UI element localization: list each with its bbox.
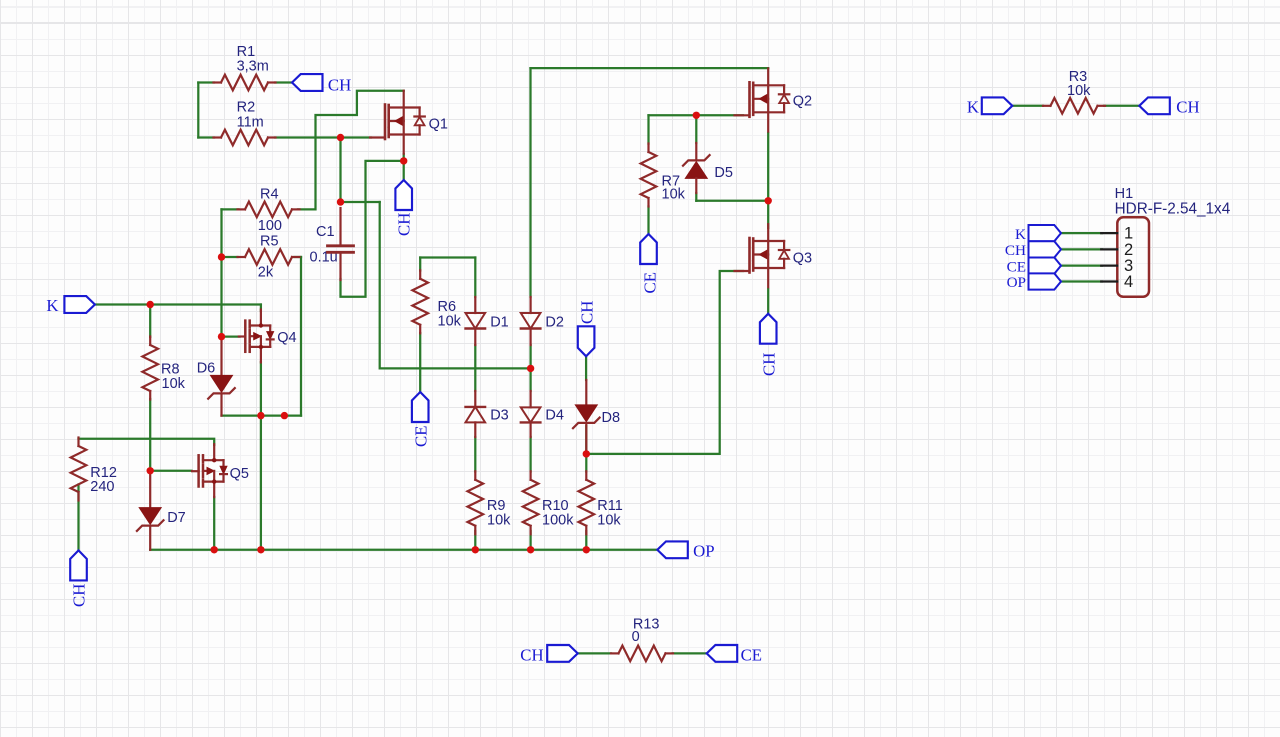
wire R9 bottom xyxy=(474,531,476,550)
wire CH to R13 xyxy=(578,652,611,654)
wire Q5 gate xyxy=(150,470,191,472)
junction node 13 xyxy=(527,546,534,553)
junction node 7 xyxy=(257,412,264,419)
svg-text:Q1: Q1 xyxy=(429,117,448,133)
svg-text:D4: D4 xyxy=(545,408,564,424)
wire to OP line xyxy=(260,416,262,550)
wire R8 bottom xyxy=(149,399,151,471)
wire R5 right lead xyxy=(295,256,302,258)
wire D4 to R10 xyxy=(529,437,531,472)
svg-text:0: 0 xyxy=(632,629,640,645)
port OP (H1) xyxy=(1029,273,1062,289)
diode D8 (TVS) xyxy=(573,405,600,428)
svg-text:3,3m: 3,3m xyxy=(237,59,269,75)
resistor R12 xyxy=(71,438,87,501)
junction node 16 xyxy=(583,450,590,457)
resistor R7 xyxy=(641,144,657,207)
port CH above D8 xyxy=(578,326,595,356)
transistor Q5 xyxy=(192,444,227,497)
diode D3 xyxy=(466,407,486,423)
port CH under Q1 xyxy=(395,180,412,210)
junction node 5 xyxy=(337,198,344,205)
svg-text:CH: CH xyxy=(395,213,414,236)
svg-text:240: 240 xyxy=(90,479,114,495)
wire D1-D3 link xyxy=(474,345,476,391)
svg-text:CH: CH xyxy=(328,75,351,94)
svg-text:R8: R8 xyxy=(161,361,180,377)
resistor R4 xyxy=(238,202,300,218)
diode D5 (TVS) xyxy=(683,155,710,178)
wire R10 bottom xyxy=(529,531,531,550)
svg-text:CE: CE xyxy=(741,646,762,665)
wire C1 node horizontal xyxy=(341,201,380,203)
svg-text:K: K xyxy=(1015,226,1026,243)
diode D1 xyxy=(466,313,486,329)
svg-text:D7: D7 xyxy=(167,510,186,526)
wire R2 to Q1 gate xyxy=(275,136,371,138)
wire K line xyxy=(95,303,261,305)
svg-text:CH: CH xyxy=(70,584,89,607)
svg-text:Q2: Q2 xyxy=(793,94,812,110)
port CH under Q3 xyxy=(760,314,777,344)
resistor R11 xyxy=(579,471,595,534)
wire R12 top row xyxy=(79,439,215,445)
wire Q1 source xyxy=(403,154,405,180)
capacitor C1 xyxy=(328,208,354,280)
svg-text:CH: CH xyxy=(520,646,543,665)
diode D8 anode lead xyxy=(585,380,587,406)
junction node 12 xyxy=(472,546,479,553)
svg-text:1: 1 xyxy=(1124,225,1133,243)
wire R8 top xyxy=(149,305,151,338)
svg-text:D8: D8 xyxy=(602,410,621,426)
svg-text:HDR-F-2.54_1x4: HDR-F-2.54_1x4 xyxy=(1115,201,1231,218)
svg-text:10k: 10k xyxy=(597,512,621,528)
diode D1 leads xyxy=(474,297,476,313)
svg-text:10k: 10k xyxy=(1067,83,1091,99)
wire Q4 gate xyxy=(222,335,240,337)
wire junction to C1 top xyxy=(339,138,341,203)
junction node 11 xyxy=(211,546,218,553)
wire H1 pin 3 xyxy=(1061,264,1102,266)
transistor Q2 xyxy=(735,69,790,132)
svg-text:R2: R2 xyxy=(237,100,256,116)
diode D4 xyxy=(521,407,541,422)
resistor R13 xyxy=(611,646,673,662)
port CH at R13 xyxy=(547,645,578,662)
wire D3 to R9 xyxy=(474,437,476,472)
diode D6 cathode lead xyxy=(220,394,222,416)
svg-text:OP: OP xyxy=(1007,274,1026,291)
wire R4/R5 left vertical xyxy=(220,209,222,336)
svg-text:2k: 2k xyxy=(258,265,274,281)
junction node 6 xyxy=(400,157,407,164)
diode D2 xyxy=(521,313,541,329)
resistor R1 xyxy=(214,75,276,91)
wire R1-R2 left xyxy=(197,83,199,138)
diode D3 leads xyxy=(474,391,476,407)
wire R7 top xyxy=(647,115,649,143)
svg-text:OP: OP xyxy=(693,542,714,561)
svg-text:D3: D3 xyxy=(490,408,509,424)
port CE at R13 xyxy=(707,645,738,662)
junction node 14 xyxy=(583,546,590,553)
wire Q4 bottom row xyxy=(222,414,302,416)
svg-text:D6: D6 xyxy=(197,361,216,377)
wire D2-D4 link xyxy=(529,345,531,391)
wire CH to D8 xyxy=(585,356,587,380)
junction node 3 xyxy=(218,333,225,340)
svg-text:Q5: Q5 xyxy=(230,466,249,482)
wire node D5 xyxy=(696,200,768,202)
svg-text:CE: CE xyxy=(1007,258,1026,275)
wire R7 bottom xyxy=(647,207,649,235)
wire R13 to CE xyxy=(673,652,707,654)
port OP xyxy=(657,541,688,558)
port K main xyxy=(64,296,95,313)
wire R12 bottom xyxy=(77,485,79,551)
svg-text:CE: CE xyxy=(641,272,660,293)
svg-text:C1: C1 xyxy=(316,224,335,240)
wire D5 top xyxy=(695,115,697,143)
wire R6 bottom to CE xyxy=(419,333,421,392)
wire R6 top xyxy=(420,256,475,258)
transistor Q1 xyxy=(370,91,425,154)
junction node 8 xyxy=(281,412,288,419)
resistor R10 xyxy=(523,471,539,534)
wire Q3 source to CH xyxy=(767,289,769,314)
svg-text:CH: CH xyxy=(1176,98,1199,117)
wire Q2 gate line xyxy=(649,114,744,116)
wire R4 left xyxy=(222,208,239,210)
wire H1 pin 4 xyxy=(1061,280,1102,282)
wire Q4 source down xyxy=(260,362,262,416)
junction node 1 xyxy=(147,301,154,308)
wire D1 anode xyxy=(474,258,476,298)
svg-text:10k: 10k xyxy=(487,512,511,528)
wire top long to Q2 xyxy=(531,67,769,69)
wire H1 pin 2 xyxy=(1061,248,1102,250)
wire Q5 source down xyxy=(213,497,215,550)
svg-text:11m: 11m xyxy=(237,115,264,131)
resistor R9 xyxy=(468,471,484,534)
diode D4 leads xyxy=(529,391,531,407)
connector H1 xyxy=(1101,217,1149,296)
wire R1 left lead xyxy=(198,81,214,83)
diode D6 anode lead xyxy=(220,337,222,376)
resistor R3 xyxy=(1043,98,1105,114)
svg-text:Q3: Q3 xyxy=(793,250,812,266)
svg-text:D1: D1 xyxy=(490,315,509,331)
junction node 4 xyxy=(337,134,344,141)
svg-text:Q4: Q4 xyxy=(277,330,296,346)
svg-text:K: K xyxy=(46,296,58,315)
wire down to D2 xyxy=(529,68,531,297)
wire Q2 source to node xyxy=(767,133,769,201)
junction node 9 xyxy=(147,467,154,474)
port CH (H1) xyxy=(1029,241,1062,257)
svg-text:4: 4 xyxy=(1124,273,1133,291)
port CH at R1 xyxy=(292,74,323,91)
resistor R2 xyxy=(214,130,276,146)
port K at R3 xyxy=(982,97,1013,114)
wire K to Q4 drain xyxy=(260,305,262,312)
diode D6 (TVS) xyxy=(208,376,235,399)
junction node 2 xyxy=(218,253,225,260)
wire R6 top lead xyxy=(419,258,421,271)
wire R2 left lead xyxy=(198,136,214,138)
port CH at R3 xyxy=(1139,97,1170,114)
svg-text:100k: 100k xyxy=(542,512,574,528)
wire R1 right to CH port xyxy=(275,81,292,83)
diode D8 cathode lead xyxy=(585,424,587,454)
wire R4 right up xyxy=(298,91,404,210)
diode D7 (TVS) xyxy=(137,508,164,531)
wire R5 right down xyxy=(300,257,302,416)
port K (H1) xyxy=(1029,225,1062,241)
diode D7 cathode lead xyxy=(149,526,151,549)
diode D2 leads xyxy=(529,297,531,313)
wire R3 to CH xyxy=(1104,105,1139,107)
svg-text:D5: D5 xyxy=(714,165,733,181)
svg-text:10k: 10k xyxy=(162,376,186,392)
svg-text:R1: R1 xyxy=(237,44,256,60)
wire D8 to dot xyxy=(585,426,587,454)
diode D7 anode lead xyxy=(149,471,151,509)
svg-text:10k: 10k xyxy=(662,186,686,202)
wire down to D row xyxy=(380,202,531,368)
svg-text:CH: CH xyxy=(1005,242,1026,259)
svg-text:100: 100 xyxy=(258,218,282,234)
resistor R8 xyxy=(142,337,158,400)
wire H1 pin 1 xyxy=(1061,232,1102,234)
transistor Q3 xyxy=(735,224,790,287)
diode D5 anode lead xyxy=(695,178,697,193)
svg-text:CH: CH xyxy=(760,353,779,376)
junction node 10 xyxy=(257,546,264,553)
wire OP line xyxy=(150,549,657,551)
junction node 18 xyxy=(765,197,772,204)
svg-text:CE: CE xyxy=(412,426,431,447)
port CE (H1) xyxy=(1029,258,1062,274)
svg-text:R5: R5 xyxy=(260,234,279,250)
port CH under R12 xyxy=(70,550,87,580)
junction node 17 xyxy=(693,112,700,119)
svg-text:CH: CH xyxy=(578,301,597,324)
wire D5 bottom xyxy=(695,193,697,201)
port CE under R6 xyxy=(412,392,429,422)
wire node to Q3 drain xyxy=(767,201,769,228)
svg-text:R4: R4 xyxy=(260,186,279,202)
transistor Q4 xyxy=(239,310,274,363)
wire D8 node down R11 xyxy=(585,454,587,472)
resistor R6 xyxy=(412,270,428,333)
diode D5 cathode lead xyxy=(695,143,697,160)
wire R5 left lead xyxy=(222,256,238,258)
resistor R5 xyxy=(238,249,300,265)
svg-text:D2: D2 xyxy=(545,315,564,331)
svg-text:10k: 10k xyxy=(438,314,462,330)
wire R11 bottom xyxy=(585,531,587,550)
wire D8 node to Q3 gate loop xyxy=(586,271,743,454)
port CE under R7 xyxy=(640,234,657,264)
wire C1 bottom loop xyxy=(341,161,404,297)
svg-text:K: K xyxy=(967,98,979,117)
junction node 15 xyxy=(527,365,534,372)
wire K to R3 xyxy=(1012,105,1043,107)
